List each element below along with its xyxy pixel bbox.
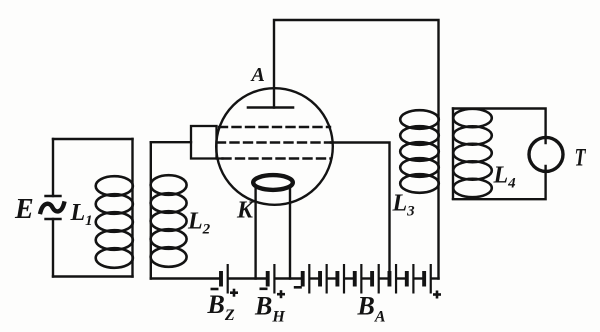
svg-text:BA: BA [357,292,386,326]
wire anode to top and down right side to battery plus [274,20,439,279]
svg-text:L3: L3 [392,191,416,220]
wire top horizontal of E-L1 tank [53,138,133,140]
wires between BA cells [310,277,438,279]
plus sign at battery right end [433,291,441,299]
inductor L3 [400,110,439,193]
wire bottom horizontal of E-L1 tank [53,275,133,277]
svg-text:K: K [236,198,255,224]
wire L4 top to telephone [453,109,546,144]
svg-text:BZ: BZ [207,290,235,324]
wire left vertical upper segment [52,139,54,196]
minus sign BH [260,288,268,291]
svg-text:L2: L2 [187,209,211,238]
svg-text:L1: L1 [70,200,93,229]
wire L2 bottom to battery BZ [151,277,220,279]
grid (three dashed lines) [217,127,331,159]
tube envelope U1 [216,88,333,205]
wire filament leg 1 [254,186,256,279]
plus sign BH [277,290,285,298]
battery BA cells [301,264,432,294]
inductor L2 [151,142,187,278]
plus sign BZ [230,289,238,297]
AC source E (break with tilde) [41,196,65,219]
wire left vertical lower segment [52,219,54,277]
inductor L1 [96,139,133,277]
wire L2 top to grid box [151,141,191,143]
wire telephone bottom to L4 bottom [453,166,546,199]
inductor L4 [453,109,492,199]
wire filament leg 2 [289,186,291,279]
filament cathode [253,175,293,190]
grid condenser box [191,126,223,159]
battery BH [266,264,276,294]
svg-text:E: E [14,194,34,225]
wire BZ to BH [229,277,266,279]
minus sign after BH [294,286,302,289]
battery BZ [219,264,229,294]
svg-text:T: T [575,144,587,172]
svg-text:A: A [250,64,265,86]
wire BH to BA [275,277,301,279]
svg-text:L4: L4 [493,163,517,192]
anode plate [248,106,293,109]
telephone receiver T [529,137,563,171]
minus sign BZ [211,288,219,291]
wire grid to right and down to battery tap [331,143,390,279]
